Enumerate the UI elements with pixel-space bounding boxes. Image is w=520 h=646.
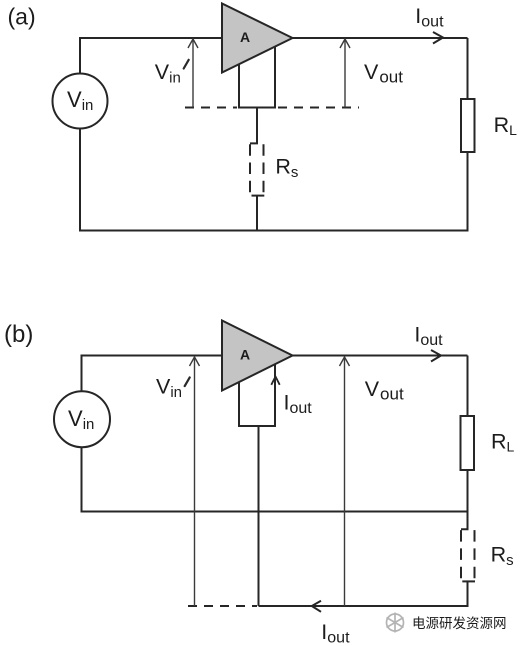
dashed bottom segment (b) xyxy=(188,605,257,607)
resistor Rs dashed (b) xyxy=(461,530,475,582)
resistor RL (b) xyxy=(461,416,475,470)
wire top-left (a) xyxy=(80,37,222,39)
arrow Iout (a) xyxy=(433,32,443,44)
amp lower-left lead (b) xyxy=(238,382,240,427)
svg-text:(b): (b) xyxy=(4,321,33,348)
wire Rs to bottom (a) xyxy=(256,196,258,231)
arrow Vout (a) xyxy=(344,40,346,108)
op-amp A (a) xyxy=(222,4,293,73)
wire bottom solid (b) xyxy=(259,605,469,607)
arrow Vout (b) xyxy=(344,358,346,606)
op-amp A (b) xyxy=(222,321,293,391)
svg-text:A: A xyxy=(240,29,250,45)
amp bottom bar (b) xyxy=(238,425,276,427)
svg-text:(a): (a) xyxy=(8,4,36,30)
arrow Iout top (b) xyxy=(431,350,441,362)
wire mid rail (b) xyxy=(81,511,469,513)
source Vin (b) xyxy=(54,391,110,447)
wire amp down (b) xyxy=(258,426,260,606)
wire top-right (a) xyxy=(291,37,468,39)
amp lower-right lead (b) xyxy=(274,364,276,426)
amp lower-left lead (a) xyxy=(238,64,240,108)
dashed reference line (a) xyxy=(185,107,237,109)
svg-text:A: A xyxy=(240,347,250,363)
amp bottom bar (a) xyxy=(238,107,276,109)
wire amp to Rs (a) xyxy=(250,108,258,144)
arrow Iout bottom (b) xyxy=(312,601,321,612)
wire right lower (b) xyxy=(461,512,469,608)
wire left (b) xyxy=(81,355,83,513)
wire right (a) xyxy=(467,38,469,231)
watermark logo xyxy=(387,613,404,633)
wire top-right (b) xyxy=(291,355,468,357)
svg-text:电源研发资源网: 电源研发资源网 xyxy=(412,616,507,631)
arrow Vin' (a) xyxy=(192,40,194,108)
wire right upper (b) xyxy=(467,356,469,512)
wire top-left (b) xyxy=(82,355,223,357)
wire left (a) xyxy=(79,37,81,232)
arrow Iout inner (b) xyxy=(271,377,279,385)
arrow Vin' (b) xyxy=(194,358,196,606)
resistor RL (a) xyxy=(461,99,475,152)
source Vin (a) xyxy=(53,74,108,129)
resistor Rs dashed (a) xyxy=(249,144,251,196)
wire bottom (a) xyxy=(79,230,469,232)
amp lower-right lead (a) xyxy=(274,47,276,108)
